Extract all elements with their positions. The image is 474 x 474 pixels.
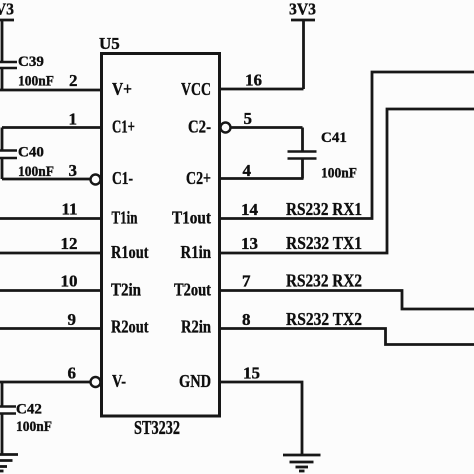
wire pin9 R2out	[0, 310, 101, 329]
svg-text:C2+: C2+	[186, 168, 211, 188]
svg-text:V+: V+	[112, 79, 132, 99]
svg-text:R2out: R2out	[111, 317, 149, 337]
power 3V3 (top-left, clipped)	[0, 0, 14, 62]
svg-text:5: 5	[244, 109, 253, 128]
svg-text:V-: V-	[112, 371, 126, 391]
svg-text:2: 2	[69, 71, 78, 90]
wire pin8 RS232 TX2	[220, 309, 474, 345]
svg-text:C40: C40	[18, 145, 44, 161]
ground (bottom-left, clipped)	[0, 455, 18, 472]
svg-text:6: 6	[68, 364, 77, 383]
svg-text:T1in: T1in	[112, 208, 138, 228]
svg-text:C39: C39	[18, 54, 44, 70]
svg-text:RS232 TX2: RS232 TX2	[286, 309, 362, 329]
svg-text:10: 10	[61, 272, 78, 291]
svg-text:100nF: 100nF	[16, 419, 52, 435]
wire pin3 C1-	[2, 161, 91, 180]
wire pin16 VCC	[220, 71, 304, 90]
wire pin13 RS232 TX1	[220, 109, 474, 253]
svg-text:16: 16	[245, 71, 262, 90]
wire pin11 T1in	[0, 200, 101, 219]
svg-text:8: 8	[242, 310, 251, 329]
svg-text:3: 3	[69, 161, 78, 180]
svg-text:9: 9	[68, 310, 77, 329]
wire pin1 C1+	[2, 110, 101, 129]
svg-text:VCC: VCC	[181, 79, 211, 99]
svg-text:R1out: R1out	[111, 242, 149, 262]
svg-text:C2-: C2-	[188, 117, 211, 137]
svg-text:100nF: 100nF	[321, 166, 357, 182]
svg-text:RS232 RX1: RS232 RX1	[286, 199, 362, 219]
svg-text:3V3: 3V3	[0, 0, 14, 19]
pin bubble C1-	[91, 175, 101, 185]
wire pin5 C2-	[231, 109, 303, 128]
wire pin2 V+	[0, 71, 101, 90]
wire pin6 V-	[0, 364, 91, 383]
svg-text:RS232 TX1: RS232 TX1	[286, 233, 362, 253]
svg-text:3V3: 3V3	[289, 0, 316, 19]
svg-text:100nF: 100nF	[18, 74, 54, 90]
svg-text:T2out: T2out	[174, 280, 211, 300]
pin bubble V-	[91, 377, 101, 387]
svg-text:RS232 RX2: RS232 RX2	[286, 271, 362, 291]
capacitor C39	[0, 54, 54, 91]
wire pin15 GND	[220, 364, 303, 455]
svg-text:15: 15	[243, 364, 260, 383]
wire pin10 T2in	[0, 272, 101, 291]
wire pin14 RS232 RX1	[220, 72, 474, 219]
svg-text:R1in: R1in	[181, 242, 212, 262]
wire pin12 R1out	[0, 234, 101, 253]
power 3V3 (top-right)	[289, 0, 316, 89]
svg-text:C1-: C1-	[112, 168, 133, 188]
svg-text:ST3232: ST3232	[134, 417, 180, 439]
svg-text:12: 12	[61, 234, 78, 253]
svg-text:7: 7	[242, 272, 251, 291]
capacitor C42	[0, 382, 52, 454]
wire pin7 RS232 RX2	[220, 271, 474, 310]
svg-text:C41: C41	[321, 130, 347, 146]
svg-text:R2in: R2in	[181, 317, 211, 337]
svg-text:14: 14	[241, 200, 259, 219]
ground (bottom-middle)	[283, 455, 321, 471]
wire pin4 C2+	[220, 161, 304, 180]
svg-text:T2in: T2in	[111, 280, 141, 300]
svg-text:GND: GND	[179, 371, 211, 391]
svg-text:C42: C42	[16, 402, 42, 418]
capacitor C41	[288, 128, 358, 182]
svg-text:4: 4	[243, 161, 252, 180]
svg-text:C1+: C1+	[112, 117, 135, 137]
svg-text:T1out: T1out	[172, 208, 211, 228]
svg-text:13: 13	[241, 234, 258, 253]
svg-text:1: 1	[69, 110, 78, 129]
svg-text:11: 11	[61, 200, 77, 219]
capacitor C40	[0, 128, 54, 181]
IC U5 chip body	[99, 34, 220, 416]
pin bubble C2-	[221, 123, 231, 133]
svg-text:U5: U5	[99, 34, 120, 53]
